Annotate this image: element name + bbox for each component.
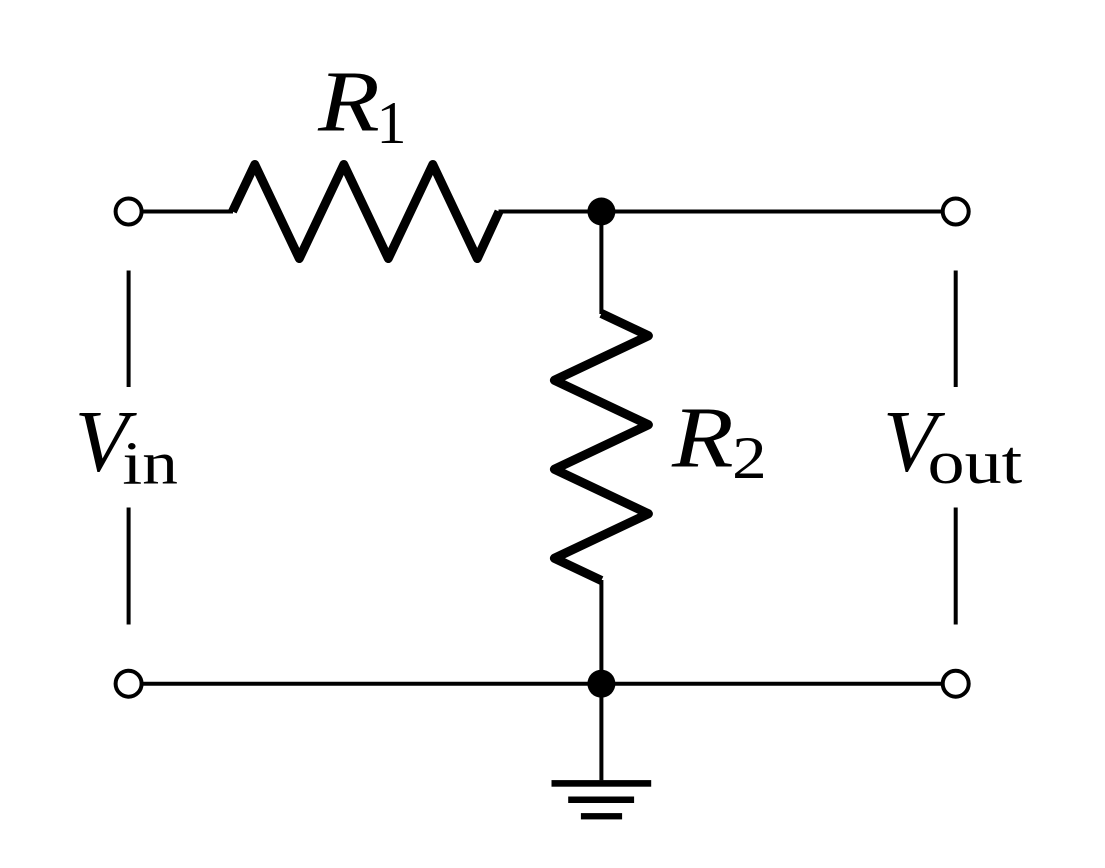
wire: bottom rail from V_in- terminal to V_out- terminal [142, 682, 943, 686]
wire: R2 to node B [599, 580, 603, 684]
wire: left port lower segment [127, 508, 131, 625]
terminal: V_in negative (bottom-left open circle) [116, 671, 142, 697]
svg-text:1: 1 [377, 90, 407, 156]
wire: node A down to R2 [599, 212, 603, 315]
label Vin [75, 394, 178, 498]
wire: right port lower segment [954, 508, 958, 625]
wire: R1 to node A and on to V_out+ terminal [499, 210, 943, 214]
svg-text:R: R [317, 54, 380, 150]
wire: top-left lead from V_in+ terminal to R1 [142, 210, 234, 214]
label R2 [671, 390, 767, 492]
wire: right port upper segment [954, 271, 958, 388]
svg-text:2: 2 [732, 425, 767, 491]
wire: node B down to ground [599, 684, 603, 781]
resistor R1 (horizontal zigzag) [233, 165, 500, 259]
svg-text:R: R [671, 390, 734, 486]
label Vout [883, 394, 1022, 497]
svg-text:in: in [122, 430, 177, 497]
terminal: V_out positive (top-right open circle) [943, 199, 969, 225]
terminal: V_out negative (bottom-right open circle) [943, 671, 969, 697]
label R1 [317, 54, 406, 156]
resistor R2 (vertical zigzag) [554, 314, 648, 581]
node A (junction of R1, R2, output) [587, 198, 615, 226]
ground (earth symbol, three bars) [552, 780, 652, 819]
svg-text:out: out [928, 427, 1023, 497]
terminal: V_in positive (top-left open circle) [116, 199, 142, 225]
node B (bottom junction to ground) [587, 670, 615, 698]
wire: left port upper segment [127, 271, 131, 388]
